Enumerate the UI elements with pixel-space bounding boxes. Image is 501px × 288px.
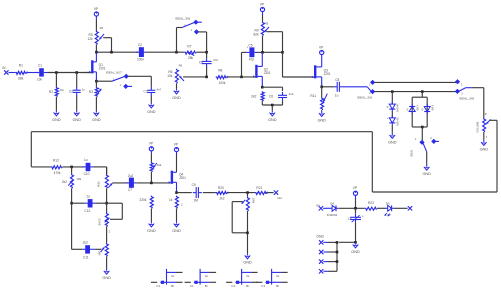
svg-text:2u2: 2u2: [128, 174, 134, 178]
svg-text:J201: J201: [99, 67, 106, 71]
svg-text:Gr: Gr: [276, 274, 279, 278]
svg-text:C1: C1: [156, 284, 160, 288]
svg-text:470k: 470k: [54, 171, 61, 175]
svg-text:+: +: [362, 215, 364, 219]
svg-text:GND: GND: [243, 261, 252, 265]
svg-text:GND: GND: [172, 229, 181, 233]
svg-text:GND: GND: [72, 118, 81, 122]
svg-text:R2: R2: [49, 90, 53, 94]
svg-text:R7: R7: [187, 44, 191, 48]
svg-text:2k2: 2k2: [251, 94, 256, 98]
svg-text:C8: C8: [335, 78, 339, 82]
svg-text:BASS: BASS: [97, 218, 101, 225]
svg-text:4148: 4148: [430, 105, 433, 111]
svg-text:1n: 1n: [82, 87, 86, 91]
svg-text:D4: D4: [330, 201, 334, 205]
svg-text:1M: 1M: [193, 198, 198, 202]
svg-text:100k: 100k: [219, 81, 226, 85]
svg-text:GND: GND: [147, 110, 156, 114]
svg-text:47p: 47p: [249, 58, 255, 62]
svg-text:R5: R5: [100, 26, 104, 30]
svg-text:220k: 220k: [139, 198, 146, 202]
svg-text:2n2: 2n2: [213, 58, 218, 62]
svg-text:IDEAL_SW: IDEAL_SW: [357, 96, 372, 100]
svg-text:GND: GND: [317, 118, 326, 122]
svg-text:R8: R8: [218, 68, 222, 72]
svg-text:68k: 68k: [18, 77, 24, 81]
svg-text:1u: 1u: [84, 158, 88, 162]
svg-text:GND: GND: [316, 235, 324, 239]
svg-text:C11: C11: [83, 255, 89, 259]
svg-text:IDEAL: IDEAL: [410, 149, 414, 157]
svg-text:R21: R21: [256, 186, 262, 190]
svg-text:C6: C6: [269, 95, 273, 99]
svg-text:Gr: Gr: [246, 274, 249, 278]
svg-text:GND: GND: [268, 118, 277, 122]
svg-text:GND: GND: [102, 276, 111, 280]
svg-text:R11: R11: [310, 94, 316, 98]
svg-text:+: +: [387, 116, 389, 120]
svg-text:25k: 25k: [188, 56, 194, 60]
svg-text:1N4148: 1N4148: [396, 117, 399, 126]
svg-text:1N4148: 1N4148: [396, 103, 399, 112]
svg-text:C4: C4: [199, 61, 203, 65]
svg-text:40k: 40k: [157, 163, 162, 167]
svg-text:401k: 401k: [96, 181, 100, 187]
svg-text:IDEAL_N27: IDEAL_N27: [106, 70, 122, 74]
svg-text:C9: C9: [192, 183, 196, 187]
svg-text:GND: GND: [92, 118, 101, 122]
svg-text:R1: R1: [19, 64, 23, 68]
svg-text:IDEAL_SW: IDEAL_SW: [175, 16, 190, 20]
svg-text:GND: GND: [480, 147, 489, 151]
svg-text:GND: GND: [52, 118, 61, 122]
svg-text:100n: 100n: [137, 57, 144, 61]
svg-text:12k: 12k: [87, 37, 93, 41]
svg-text:IDEAL_SW: IDEAL_SW: [459, 97, 474, 101]
svg-text:82k: 82k: [253, 32, 259, 36]
svg-text:10n: 10n: [37, 78, 43, 82]
svg-text:GND: GND: [388, 140, 397, 144]
svg-text:1N4002: 1N4002: [327, 213, 338, 217]
svg-text:VOLUME: VOLUME: [476, 121, 480, 132]
svg-text:J201: J201: [324, 72, 331, 76]
svg-text:Br: Br: [171, 284, 174, 288]
svg-text:2k2: 2k2: [219, 197, 224, 201]
svg-text:GND: GND: [351, 250, 360, 254]
svg-text:4148: 4148: [415, 105, 418, 111]
svg-text:GND: GND: [172, 96, 181, 100]
svg-text:C1: C1: [231, 284, 235, 288]
svg-text:4n7: 4n7: [156, 88, 161, 92]
svg-text:R12: R12: [53, 158, 59, 162]
svg-text:D5: D5: [386, 201, 390, 205]
svg-text:C1: C1: [190, 284, 194, 288]
svg-text:GND: GND: [422, 172, 431, 176]
svg-text:R6: R6: [179, 63, 183, 67]
svg-text:C1: C1: [38, 63, 42, 67]
svg-text:2u2: 2u2: [83, 241, 89, 245]
svg-text:10k: 10k: [167, 74, 173, 78]
svg-text:Gr: Gr: [205, 274, 208, 278]
svg-text:C3: C3: [144, 90, 148, 94]
svg-text:S: S: [406, 107, 408, 111]
svg-text:1u: 1u: [335, 93, 339, 97]
svg-text:C7: C7: [128, 188, 132, 192]
svg-text:S: S: [386, 105, 388, 109]
svg-text:Br: Br: [205, 284, 208, 288]
svg-text:C2: C2: [69, 90, 73, 94]
svg-text:C10: C10: [84, 172, 90, 176]
svg-text:2n2: 2n2: [289, 92, 294, 96]
svg-text:J201: J201: [179, 176, 186, 180]
svg-text:100k: 100k: [252, 198, 256, 204]
svg-text:C12: C12: [84, 209, 90, 213]
svg-text:1u: 1u: [348, 217, 352, 221]
svg-text:C5: C5: [248, 43, 252, 47]
svg-text:R20: R20: [218, 186, 224, 190]
svg-text:S: S: [421, 107, 423, 111]
svg-text:18k: 18k: [77, 177, 82, 181]
svg-text:Br: Br: [246, 284, 249, 288]
svg-text:R23: R23: [368, 201, 374, 205]
svg-text:1k: 1k: [169, 198, 173, 202]
svg-text:Br: Br: [276, 284, 279, 288]
svg-text:Gr: Gr: [171, 274, 174, 278]
svg-text:2k2: 2k2: [62, 180, 67, 184]
svg-text:R3: R3: [89, 90, 93, 94]
svg-text:R: R: [485, 112, 487, 116]
svg-text:C1: C1: [261, 284, 265, 288]
svg-text:1u: 1u: [86, 194, 90, 198]
svg-text:1M: 1M: [60, 88, 65, 92]
svg-text:Out: Out: [277, 196, 282, 200]
svg-text:GND: GND: [147, 229, 156, 233]
svg-text:J201: J201: [264, 71, 271, 75]
svg-text:C2: C2: [138, 43, 142, 47]
